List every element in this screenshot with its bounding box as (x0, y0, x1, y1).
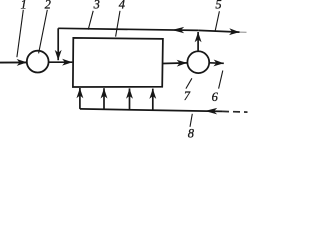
wire bottom riser 2 (103, 88, 105, 109)
wire bottom riser 4 (152, 89, 154, 110)
leader line 2 (39, 10, 48, 54)
wire input arrow into summing junction (0, 61, 27, 63)
wire bottom return dashed tail (222, 110, 248, 113)
wire riser from right junction up (197, 32, 199, 51)
leader line 3 (88, 11, 93, 30)
svg-text:4: 4 (119, 0, 125, 11)
wire block to right junction with arrow (163, 62, 187, 65)
summing junction circle left (27, 51, 49, 73)
svg-text:2: 2 (45, 0, 51, 11)
block rectangle (73, 38, 163, 87)
svg-text:5: 5 (215, 0, 221, 12)
wire bottom riser 3 (129, 88, 131, 109)
node junction top (198, 30, 239, 32)
wire faint output tail (240, 31, 247, 33)
wire top feedback line (58, 28, 198, 30)
wire junction to block with arrow (49, 61, 73, 63)
summing junction circle right (187, 51, 209, 73)
svg-text:3: 3 (93, 0, 100, 11)
wire output right short arrow (209, 62, 224, 65)
wire feedback drop arrow into connector (57, 28, 59, 60)
svg-text:6: 6 (212, 90, 219, 104)
leader line 1 (17, 10, 23, 57)
svg-text:7: 7 (184, 89, 191, 103)
leader line 5 (215, 11, 219, 31)
leader line 6 (219, 71, 223, 89)
wire bottom riser 1 (79, 88, 81, 109)
svg-text:8: 8 (188, 126, 195, 139)
svg-text:1: 1 (20, 0, 26, 11)
leader line 4 (116, 11, 120, 37)
leader line 7 (186, 78, 192, 88)
wire bottom return line (80, 109, 222, 112)
arrowhead bottom return pointing left (205, 108, 217, 115)
leader line 8 (190, 114, 192, 127)
arrowhead mid feedback pointing left (172, 27, 184, 33)
